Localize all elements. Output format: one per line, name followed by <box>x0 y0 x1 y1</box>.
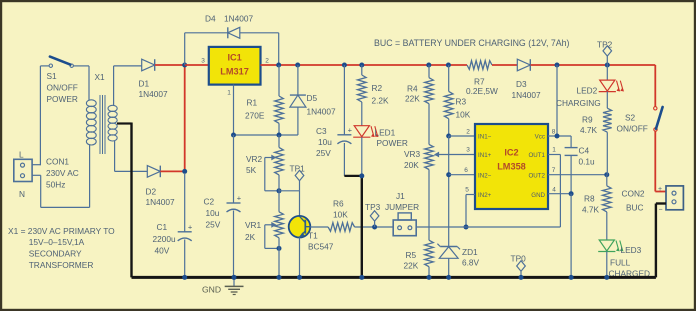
svg-text:3: 3 <box>466 147 470 154</box>
resistor R1 <box>275 96 284 123</box>
label R6 10K <box>333 199 348 220</box>
svg-text:2: 2 <box>466 129 470 136</box>
svg-text:LED3: LED3 <box>621 245 642 255</box>
wire VR1 to ground <box>278 238 280 278</box>
svg-text:VR2: VR2 <box>246 154 263 164</box>
wire black C3 LED1 node to ground <box>344 176 361 278</box>
LED LED3 <box>598 240 623 252</box>
wire CON1 N to primary bottom <box>32 145 90 208</box>
svg-text:L: L <box>19 150 24 160</box>
svg-text:IN1+: IN1+ <box>478 152 492 159</box>
wire D5 top <box>297 65 299 95</box>
label C3 10u 25V <box>316 126 332 158</box>
wire red D1 to node A <box>155 64 185 66</box>
label R3 10K <box>456 97 471 120</box>
wire IC2 pin6 stub <box>449 174 475 176</box>
svg-text:22K: 22K <box>404 261 419 271</box>
wire R9 to OUT2 node <box>606 132 608 175</box>
svg-text:+: + <box>237 194 242 203</box>
label C1 2200u 40V <box>153 222 176 256</box>
node rail R3 <box>446 63 451 68</box>
svg-text:CON1: CON1 <box>46 157 69 167</box>
label T1 BC547 <box>308 231 334 252</box>
capacitor C2 <box>227 194 242 213</box>
label R8 4.7K <box>582 193 600 214</box>
svg-text:10u: 10u <box>318 137 332 147</box>
node IN2- <box>446 172 451 177</box>
connector CON1 <box>14 159 32 181</box>
svg-text:R6: R6 <box>333 199 344 209</box>
wire red IC1 pin2 rail <box>261 64 468 66</box>
svg-text:R4: R4 <box>407 84 418 94</box>
svg-text:R3: R3 <box>456 97 467 107</box>
svg-text:D2: D2 <box>146 187 157 197</box>
wire red node B to node A <box>184 65 186 171</box>
svg-text:TP0: TP0 <box>511 254 527 264</box>
node VR1 wiper <box>277 246 282 251</box>
svg-text:22K: 22K <box>405 94 420 104</box>
svg-text:S1: S1 <box>47 71 58 81</box>
label D2 1N4007 <box>146 187 175 208</box>
wire T1 collector <box>299 191 301 216</box>
label R9 4.7K <box>580 115 598 136</box>
transistor T1 <box>289 216 311 238</box>
label R5 22K <box>404 250 419 271</box>
wire ZD1 to ground <box>448 258 450 277</box>
wire J1 to OUT1 <box>416 155 560 228</box>
resistor R4 <box>425 78 434 104</box>
wire R2 to LED1 <box>361 102 363 126</box>
svg-text:OUT1: OUT1 <box>528 152 545 159</box>
svg-text:1N4007: 1N4007 <box>307 107 336 117</box>
svg-text:BUC = BATTERY UNDER CHARGING (: BUC = BATTERY UNDER CHARGING (12V, 7Ah) <box>374 38 570 48</box>
wire S1 to transformer primary <box>73 66 89 100</box>
wire C4 bottom lead <box>570 155 572 193</box>
switch S1 <box>49 57 73 68</box>
label CON2 plus <box>658 186 662 193</box>
wiper VR3 to IC2 pin3 <box>435 152 475 157</box>
svg-text:R8: R8 <box>584 193 595 203</box>
node C3 LED1 <box>359 173 364 178</box>
capacitor C3 <box>337 125 352 144</box>
wire R2 top <box>361 65 363 75</box>
test point TP1 <box>290 164 306 191</box>
wire IC2 pin8 stub <box>548 135 571 137</box>
svg-text:10K: 10K <box>333 210 348 220</box>
svg-text:R9: R9 <box>582 115 593 125</box>
svg-text:LM358: LM358 <box>497 162 526 172</box>
svg-text:20K: 20K <box>404 160 419 170</box>
test point TP3 <box>365 202 381 227</box>
svg-text:IN2+: IN2+ <box>478 192 492 199</box>
node R1 D5 VR2 <box>277 133 282 138</box>
switch S2 <box>654 107 663 132</box>
wire red S2 to CON2 <box>655 131 666 191</box>
wire reference column <box>448 136 450 247</box>
label X1 note <box>8 226 115 270</box>
resistor R9 <box>603 108 612 132</box>
svg-text:D5: D5 <box>307 93 318 103</box>
svg-text:10K: 10K <box>456 110 471 120</box>
junction <box>232 275 237 280</box>
pin 2 label <box>466 129 470 136</box>
svg-text:X1: X1 <box>95 72 106 82</box>
junction <box>182 275 187 280</box>
svg-text:3: 3 <box>201 58 205 65</box>
wire Vcc from rail <box>556 65 558 136</box>
svg-text:JUMPER: JUMPER <box>385 202 419 212</box>
wire secondary bottom to D2 <box>115 141 148 171</box>
wire R1 top <box>278 65 280 96</box>
wire R4 top <box>428 65 430 78</box>
wire R3 bottom to IN1- <box>448 119 450 136</box>
label C2 10u 25V <box>204 197 221 230</box>
resistor R5 <box>425 240 434 267</box>
svg-text:C4: C4 <box>579 146 590 156</box>
svg-text:+: + <box>658 186 662 193</box>
LED LED1 <box>353 126 378 138</box>
pin 8 label <box>552 129 556 136</box>
wire T1 emitter to ground <box>299 238 301 278</box>
wire T1 base to R6 <box>310 226 328 228</box>
svg-text:0.2E,5W: 0.2E,5W <box>466 86 498 96</box>
node ADJ pin1 <box>231 133 236 138</box>
node rail C3 <box>342 63 347 68</box>
wire D5 bottom <box>297 107 299 135</box>
svg-text:IN2−: IN2− <box>478 172 492 179</box>
zener ZD1 <box>437 244 460 259</box>
diode D4 loop wire <box>185 33 279 65</box>
wire red D3 to S2 corner <box>531 65 656 107</box>
node rail R1 <box>276 63 281 68</box>
resistor R7 <box>467 61 492 70</box>
label D3 1N4007 <box>512 79 541 100</box>
wire black center tap <box>117 123 132 278</box>
wire IC2 pin5 stub <box>466 195 475 228</box>
label LED1 POWER <box>375 128 408 149</box>
svg-text:25V: 25V <box>316 148 331 158</box>
wire red node A to IC1 pin3 <box>185 64 209 66</box>
wiper VR2 <box>265 155 279 191</box>
label LED3 FULL CHARGED <box>609 245 651 279</box>
pin 3 label <box>201 58 205 65</box>
node rail TP2 <box>605 63 610 68</box>
wire IC1 pin1 ADJ <box>234 85 298 136</box>
test point TP2 <box>597 40 613 66</box>
svg-text:10u: 10u <box>206 208 220 218</box>
svg-text:1: 1 <box>552 147 556 154</box>
svg-text:IC1: IC1 <box>227 53 241 63</box>
label S1 ON/OFF POWER <box>47 71 78 104</box>
wire C2 to ground <box>233 211 235 278</box>
svg-text:D3: D3 <box>516 79 527 89</box>
connector CON2 <box>666 186 683 210</box>
svg-text:CHARGING: CHARGING <box>556 98 601 108</box>
svg-text:1N4007: 1N4007 <box>139 89 168 99</box>
capacitor C4 <box>565 148 578 156</box>
wire R8 top <box>606 175 608 186</box>
diode D2 <box>147 166 160 178</box>
pin 6 label <box>464 167 468 174</box>
svg-text:BC547: BC547 <box>308 242 334 252</box>
wire IC2 pin2 stub <box>449 135 475 137</box>
wire C3 bottom <box>343 143 345 176</box>
wire C4 top lead <box>570 136 572 148</box>
wiper VR1 <box>265 222 279 248</box>
wire R5 to ground <box>428 267 430 278</box>
svg-text:R7: R7 <box>474 77 485 87</box>
svg-text:IN1−: IN1− <box>478 134 492 141</box>
wire LED2 to R9 <box>606 92 608 109</box>
svg-text:TRANSFORMER: TRANSFORMER <box>29 260 94 270</box>
node VR2 wiper <box>277 188 282 193</box>
label CON2 BUC <box>622 189 645 213</box>
label R7 0.2E,5W <box>466 77 498 97</box>
label D1 1N4007 <box>139 79 168 100</box>
wire IC2 pin4 stub <box>548 193 571 195</box>
pin 1 label <box>552 147 556 154</box>
label CON1 230V AC 50Hz <box>46 157 79 190</box>
svg-text:LM317: LM317 <box>220 67 249 77</box>
wire S1 left lead from CON1 L <box>32 66 49 165</box>
variable resistor VR2 <box>275 147 284 175</box>
svg-text:+: + <box>348 125 353 134</box>
svg-text:5K: 5K <box>246 165 257 175</box>
svg-text:270E: 270E <box>245 111 265 121</box>
resistor R2 <box>358 75 367 102</box>
node rail R2 <box>359 63 364 68</box>
transformer X1 <box>86 95 117 154</box>
svg-text:230V AC: 230V AC <box>46 168 79 178</box>
svg-text:FULL: FULL <box>610 258 631 268</box>
label L <box>19 150 24 160</box>
svg-text:50Hz: 50Hz <box>46 180 65 190</box>
variable resistor VR1 <box>275 212 284 238</box>
label S2 ON/OFF <box>617 113 648 134</box>
wire C1 to ground rail <box>184 240 186 278</box>
label LED2 CHARGING <box>556 86 601 108</box>
svg-text:6.8V: 6.8V <box>462 258 480 268</box>
wire VR1 column <box>278 175 280 212</box>
junction <box>297 275 302 280</box>
svg-text:C1: C1 <box>157 222 168 232</box>
wire TP1 node <box>279 190 300 192</box>
svg-text:15V–0–15V,1A: 15V–0–15V,1A <box>29 237 85 247</box>
pin 5 label <box>465 187 469 194</box>
node A <box>182 63 187 68</box>
label N <box>19 189 25 199</box>
node rail R4 <box>426 63 431 68</box>
label BUC note <box>374 38 570 48</box>
svg-text:POWER: POWER <box>47 94 78 104</box>
svg-text:VR1: VR1 <box>245 220 262 230</box>
wire R4 to VR3 <box>428 104 430 145</box>
wire red R7 to D3 <box>492 64 517 66</box>
ground GND <box>202 275 244 295</box>
label C4 0.1u <box>579 146 596 167</box>
svg-text:1N4007: 1N4007 <box>146 197 175 207</box>
wire secondary top to D1 <box>114 66 142 106</box>
node TP3 <box>372 225 377 230</box>
svg-text:4.7K: 4.7K <box>582 204 600 214</box>
junction <box>277 275 282 280</box>
svg-text:1N4007: 1N4007 <box>224 14 253 24</box>
svg-text:2: 2 <box>265 58 269 65</box>
svg-text:Vcc: Vcc <box>535 134 545 141</box>
node Vcc <box>555 134 560 139</box>
resistor R6 <box>328 223 355 232</box>
svg-text:ZD1: ZD1 <box>462 247 478 257</box>
wire C3 top <box>343 65 345 135</box>
svg-text:5: 5 <box>465 187 469 194</box>
wire VR3 to R5 <box>428 170 430 241</box>
label VR1 2K <box>245 220 262 242</box>
diode D1 <box>142 59 155 71</box>
svg-text:N: N <box>19 189 25 199</box>
svg-text:40V: 40V <box>155 246 170 256</box>
wire R8 to LED3 <box>606 212 608 240</box>
wire C2 column <box>233 135 235 203</box>
svg-text:0.1u: 0.1u <box>579 157 596 167</box>
wire IC2 pin7 to OUT2 node <box>548 174 607 176</box>
pin 3 label <box>466 147 470 154</box>
svg-text:SECONDARY: SECONDARY <box>29 248 82 258</box>
svg-text:R1: R1 <box>247 98 258 108</box>
test point TP0 <box>511 254 527 278</box>
svg-text:IC2: IC2 <box>504 148 518 158</box>
svg-text:TP1: TP1 <box>290 164 306 174</box>
label R1 270E <box>245 98 265 121</box>
label R4 22K <box>405 84 420 104</box>
svg-text:4: 4 <box>552 187 556 194</box>
node OUT2 <box>604 172 609 177</box>
wire R6 to J1 <box>355 226 394 228</box>
variable resistor VR3 <box>425 144 434 169</box>
resistor R3 <box>444 91 453 118</box>
svg-text:J1: J1 <box>396 191 405 201</box>
svg-text:2.2K: 2.2K <box>372 96 390 106</box>
svg-text:S2: S2 <box>625 113 636 123</box>
wire node B to C1 <box>184 173 186 232</box>
svg-text:TP3: TP3 <box>365 202 381 212</box>
svg-text:LED2: LED2 <box>577 86 598 96</box>
svg-text:R5: R5 <box>406 250 417 260</box>
label J1 JUMPER <box>385 191 419 212</box>
label D4 1N4007 <box>205 14 253 24</box>
svg-text:D1: D1 <box>139 79 150 89</box>
svg-text:+: + <box>188 222 193 231</box>
diode D3 <box>517 59 530 71</box>
op-amp IC1 LM317 <box>209 47 261 85</box>
junction <box>359 275 364 280</box>
svg-text:C3: C3 <box>316 126 327 136</box>
capacitor C1 <box>178 222 193 241</box>
junction <box>427 275 432 280</box>
wire black ground rail <box>132 204 667 278</box>
junction <box>446 275 451 280</box>
wire LED1 bottom <box>361 137 363 176</box>
pin 2 label <box>265 58 269 65</box>
LED LED2 <box>599 80 624 92</box>
svg-text:2K: 2K <box>245 232 256 242</box>
node IN1- <box>446 134 451 139</box>
wire R1 bottom to ADJ node <box>278 123 280 135</box>
label ZD1 6.8V <box>462 247 480 268</box>
pin 4 label <box>552 187 556 194</box>
jumper J1 <box>393 213 416 236</box>
svg-text:LED1: LED1 <box>375 128 396 138</box>
node rail Vcc <box>555 63 560 68</box>
svg-text:ON/OFF: ON/OFF <box>617 123 648 133</box>
label VR3 20K <box>404 149 421 170</box>
svg-text:−: − <box>659 207 663 214</box>
svg-text:GND: GND <box>202 284 221 294</box>
svg-text:OUT2: OUT2 <box>528 172 545 179</box>
svg-text:1N4007: 1N4007 <box>512 90 541 100</box>
wire red D2 to node B <box>160 170 184 172</box>
junction <box>569 275 574 280</box>
op-amp IC2 LM358 <box>475 124 548 209</box>
svg-text:X1 = 230V AC PRIMARY TO: X1 = 230V AC PRIMARY TO <box>8 226 115 236</box>
label CON2 minus <box>659 207 663 214</box>
node B <box>182 169 187 174</box>
node pin4 C4 <box>569 191 574 196</box>
svg-text:CON2: CON2 <box>622 189 645 199</box>
junction <box>604 275 609 280</box>
svg-text:1: 1 <box>227 90 231 97</box>
diode D5 <box>290 95 306 107</box>
node rail D5 <box>295 63 300 68</box>
label X1 <box>95 72 106 82</box>
svg-text:2200u: 2200u <box>153 234 176 244</box>
svg-text:GND: GND <box>531 192 545 199</box>
pin 1 label <box>227 90 231 97</box>
svg-text:4.7K: 4.7K <box>580 125 598 135</box>
label R2 2.2K <box>372 83 390 106</box>
svg-text:POWER: POWER <box>377 138 408 148</box>
wire LED3 to ground rail <box>606 252 608 278</box>
svg-text:ON/OFF: ON/OFF <box>47 83 78 93</box>
junction <box>519 275 524 280</box>
svg-text:BUC: BUC <box>626 202 644 212</box>
svg-text:T1: T1 <box>308 231 318 241</box>
svg-text:TP2: TP2 <box>597 40 613 50</box>
svg-text:C2: C2 <box>204 197 215 207</box>
svg-text:D4: D4 <box>205 14 216 24</box>
svg-text:6: 6 <box>464 167 468 174</box>
svg-text:VR3: VR3 <box>404 149 421 159</box>
label VR2 5K <box>246 154 263 175</box>
wire VR2 column <box>278 135 280 147</box>
pin 7 label <box>552 167 556 174</box>
label D5 1N4007 <box>307 93 336 117</box>
svg-text:7: 7 <box>552 167 556 174</box>
diode D4 <box>228 27 240 38</box>
svg-text:25V: 25V <box>206 220 221 230</box>
wire LED2 top <box>606 65 608 80</box>
resistor R8 <box>603 186 612 212</box>
node pin5 J1 line <box>464 225 469 230</box>
svg-text:R2: R2 <box>372 83 383 93</box>
wire pin4 to ground rail <box>570 194 572 278</box>
wire R3 top <box>448 65 450 91</box>
